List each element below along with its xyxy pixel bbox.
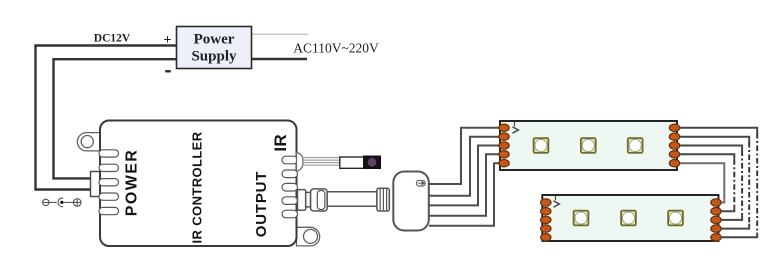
svg-text:IR CONTROLLER: IR CONTROLLER	[190, 131, 205, 243]
svg-text:IR: IR	[271, 134, 290, 152]
svg-text:+: +	[164, 33, 172, 48]
svg-text:AC110V~220V: AC110V~220V	[293, 41, 379, 56]
svg-text:OUTPUT: OUTPUT	[253, 171, 270, 237]
svg-text:Power: Power	[194, 32, 235, 48]
svg-text:Supply: Supply	[191, 49, 237, 65]
svg-text:DC12V: DC12V	[94, 33, 131, 45]
svg-text:POWER: POWER	[124, 149, 141, 216]
